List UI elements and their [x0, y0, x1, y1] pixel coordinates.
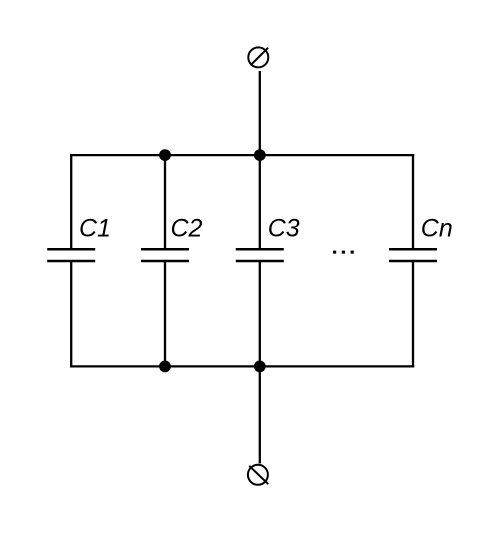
svg-text:Cn: Cn — [421, 215, 453, 243]
svg-text:C1: C1 — [79, 215, 111, 243]
svg-text:C2: C2 — [171, 215, 203, 243]
svg-text:C3: C3 — [268, 215, 300, 243]
